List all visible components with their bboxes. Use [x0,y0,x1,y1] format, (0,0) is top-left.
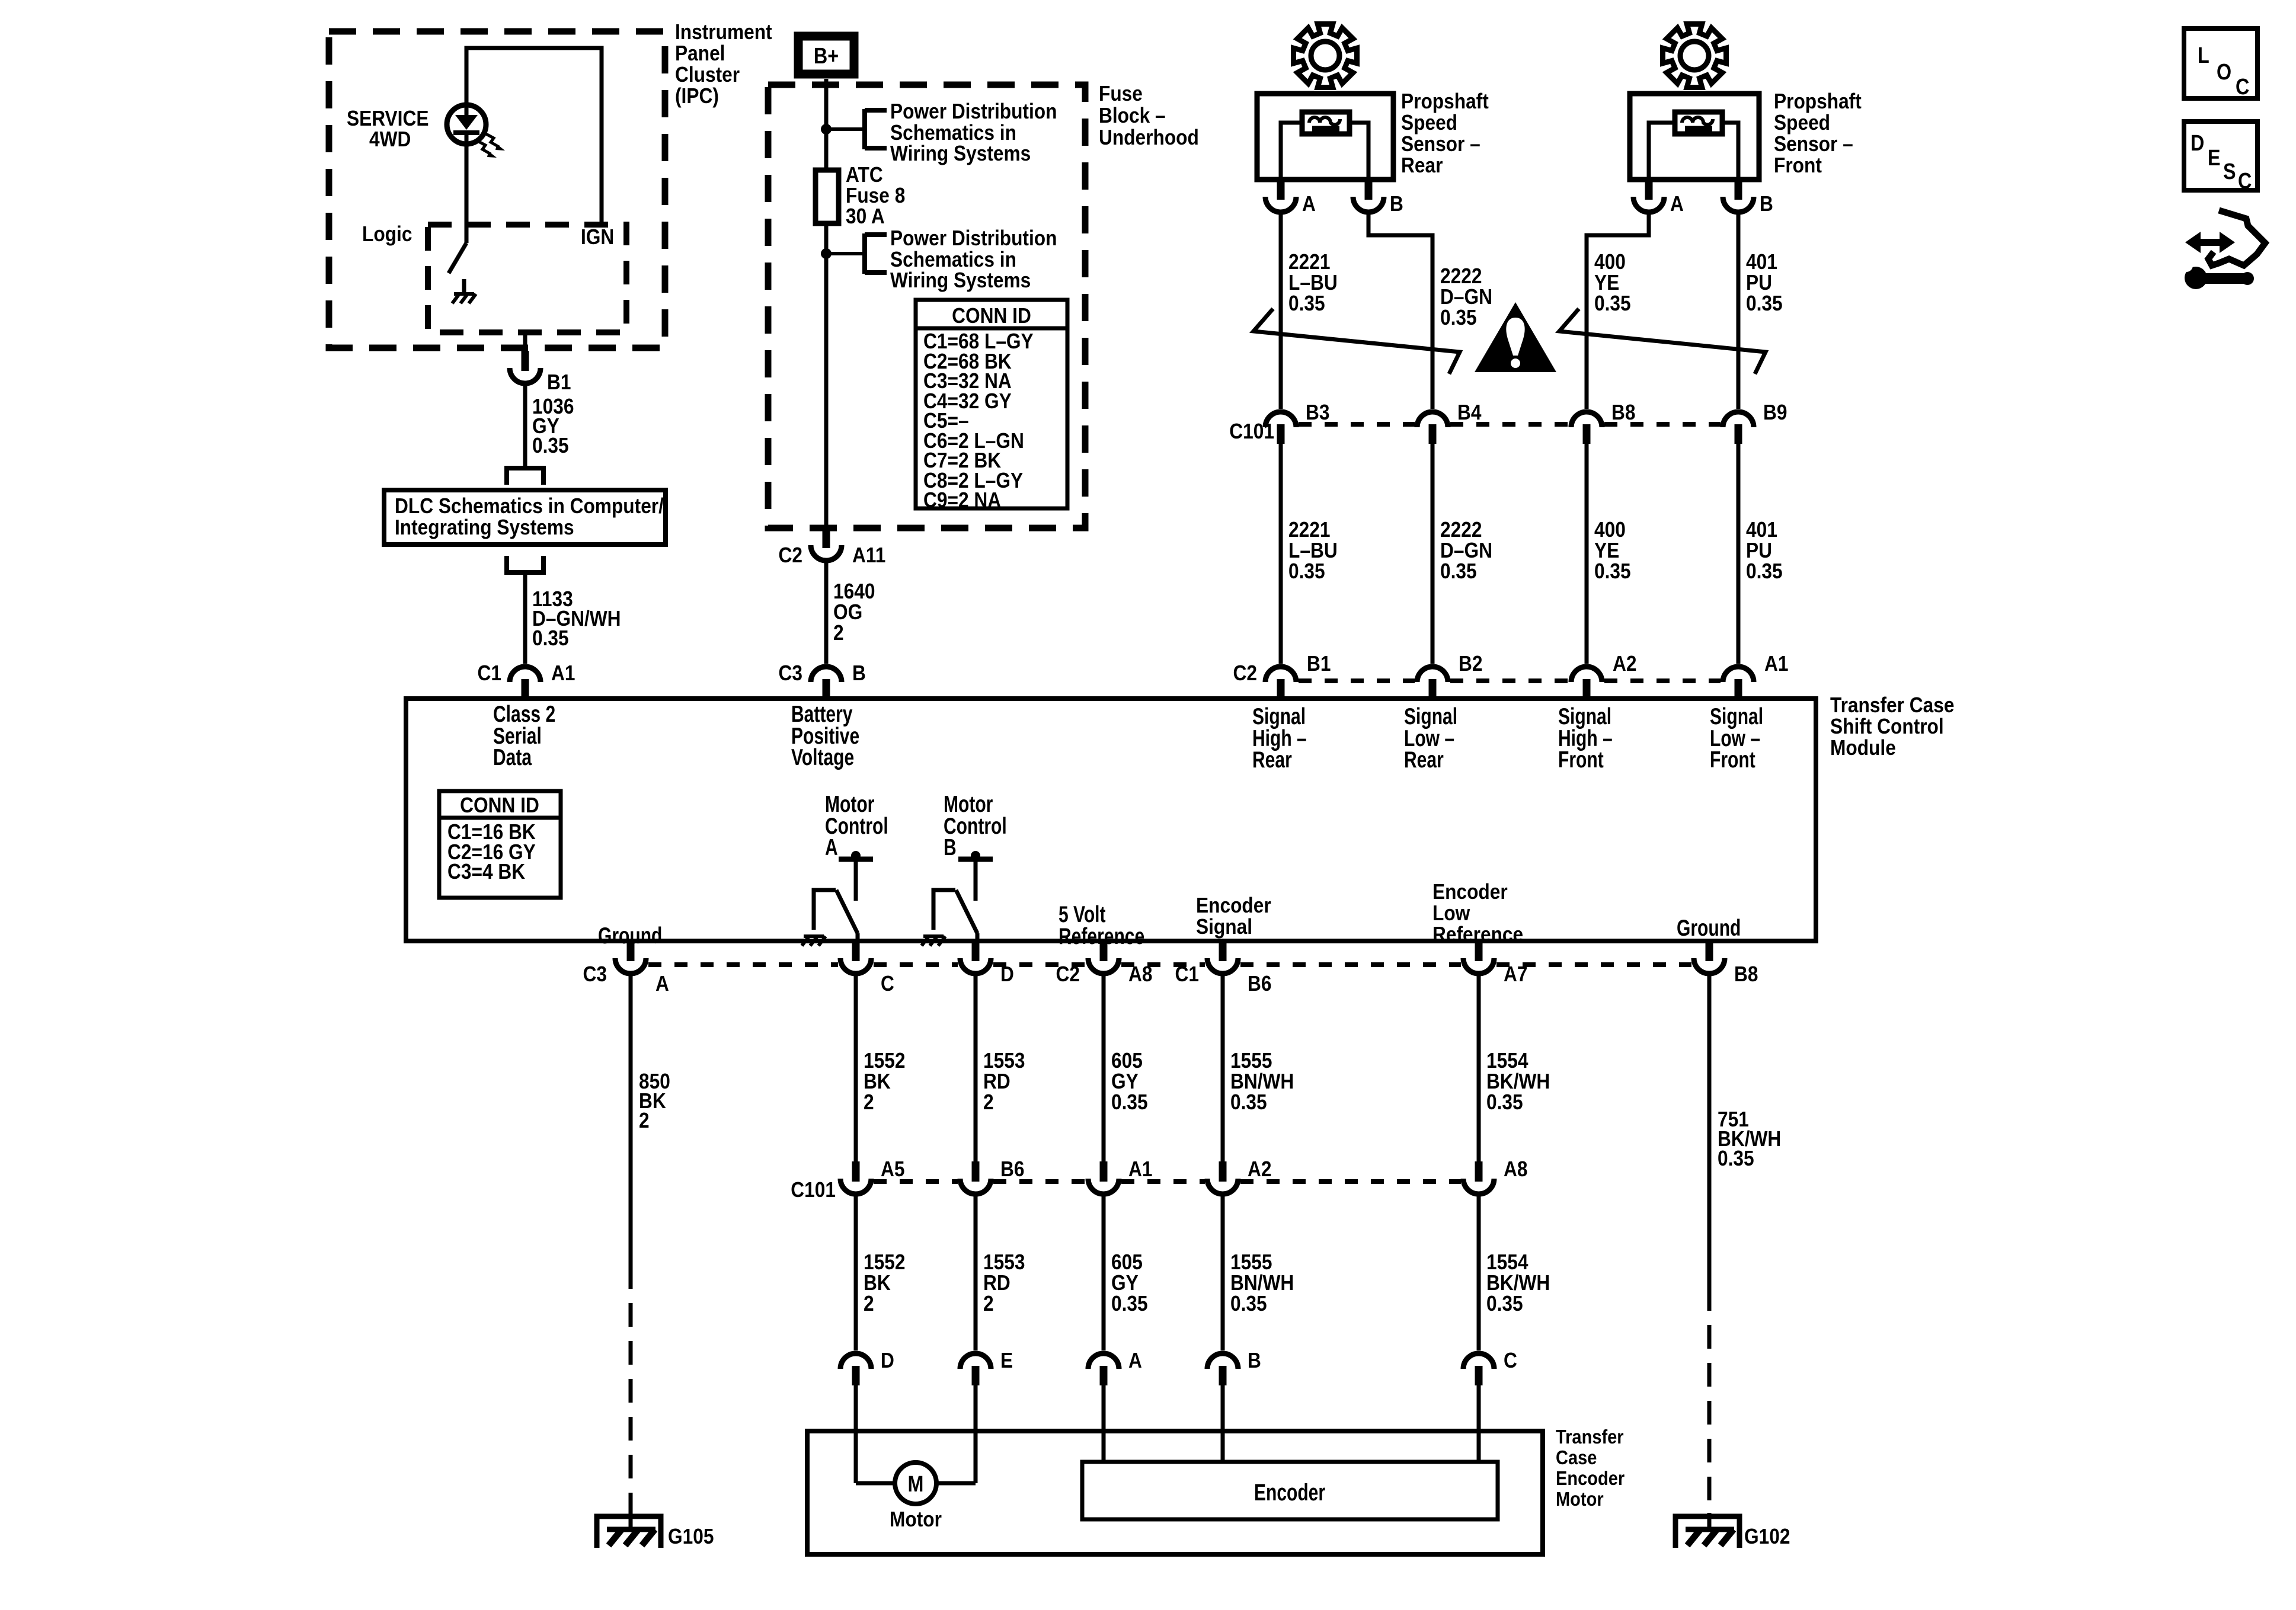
wire label 400 upper [1594,250,1631,315]
svg-text:A: A [825,834,838,860]
svg-text:Panel: Panel [675,41,725,65]
label Instrument Panel Cluster (IPC) [675,20,772,108]
wire label 751 BK/WH 0.35 [1718,1108,1781,1170]
svg-text:0.35: 0.35 [1594,559,1631,583]
wire label 605 GY 0.35 (lower) [1111,1250,1148,1315]
wire label 401 upper [1746,250,1783,315]
wire 1554 mid segment [1477,1194,1481,1350]
motor control driver A [802,851,873,946]
junction dot 2 [821,248,832,259]
svg-text:2: 2 [983,1090,994,1114]
svg-text:A: A [1302,192,1316,216]
svg-text:0.35: 0.35 [1440,306,1477,329]
ground in logic box [452,279,476,303]
svg-text:C9=2 NA: C9=2 NA [923,488,1001,512]
svg-text:B3: B3 [1306,401,1329,424]
label A (rear) [1302,192,1316,216]
label B (rear) [1390,192,1403,216]
label C3 (bottom left) [583,962,607,986]
wire label 2221 lower [1288,518,1338,583]
label B1 (module) [1307,652,1331,676]
svg-text:C3=4 BK: C3=4 BK [447,860,526,884]
wire label 1552 BK 2 (lower) [864,1250,905,1315]
svg-text:(IPC): (IPC) [675,84,719,108]
label Propshaft Speed Sensor Front [1774,89,1862,177]
svg-text:30 A: 30 A [846,204,885,228]
svg-text:B: B [1760,192,1773,216]
label B8 [1611,401,1635,424]
svg-text:C3: C3 [583,962,607,986]
label C (motor) [1504,1349,1517,1372]
svg-text:G105: G105 [668,1525,714,1548]
svg-text:Underhood: Underhood [1099,126,1199,149]
svg-text:C: C [881,972,894,996]
svg-text:2: 2 [833,621,844,645]
branch wire to power distribution 1 [826,127,865,131]
label C1 [478,661,501,685]
connector motor C [1463,1353,1494,1385]
svg-text:0.35: 0.35 [532,626,569,650]
svg-text:2: 2 [639,1109,650,1132]
label E (motor) [1000,1349,1013,1372]
svg-text:L: L [2198,43,2209,68]
svg-text:C: C [1504,1349,1517,1372]
svg-text:Speed: Speed [1401,111,1457,135]
connector C101 B4 [1417,412,1448,444]
label A8 (lower) [1504,1157,1527,1181]
connector dashed line (module top) [1299,678,1721,683]
wire 1552 upper segment [854,974,858,1161]
svg-text:B+: B+ [814,44,839,69]
wire B+ to fuse [824,79,829,170]
svg-text:B1: B1 [547,370,571,394]
wire label 2222 upper [1440,264,1492,329]
svg-text:C101: C101 [791,1178,836,1202]
switch blade [449,243,466,273]
svg-text:C2: C2 [779,543,802,567]
LOC icon [2184,28,2257,100]
gear icon (rear propshaft) [1294,24,1357,88]
connector module bottom C [840,941,871,974]
connector C2-A11 [811,528,842,561]
svg-text:Block –: Block – [1099,104,1166,127]
connector module bottom B8 [1694,941,1725,974]
label Logic [362,222,412,246]
connector B (front) [1723,180,1754,212]
wire fuse to A11 [824,223,829,528]
label C101 (upper) [1229,420,1274,443]
label IGN [581,225,614,249]
label power distribution 1 [890,100,1057,165]
connector motor D [840,1353,871,1385]
svg-text:D: D [881,1349,894,1372]
svg-text:Transfer Case: Transfer Case [1830,693,1954,717]
svg-text:B9: B9 [1763,401,1787,424]
wire into encoder motor box B [1221,1385,1225,1464]
continuation bracket above DLC [507,468,543,485]
svg-text:C3: C3 [779,661,802,685]
svg-text:0.35: 0.35 [1111,1090,1148,1114]
label D (motor) [881,1349,894,1372]
CONN ID table (fuse block) [916,300,1067,512]
svg-text:B: B [1390,192,1403,216]
ground G105 [597,1516,661,1548]
label C2 [779,543,802,567]
label B4 [1457,401,1482,424]
svg-text:C: C [2238,169,2252,194]
connector module bottom A8 [1088,941,1119,974]
svg-text:A5: A5 [881,1157,904,1181]
wire LED to switch [465,144,469,243]
label Ground (right) [1677,915,1741,941]
svg-text:E: E [2208,146,2221,171]
label Encoder Signal [1196,894,1271,939]
svg-text:A: A [655,972,669,996]
svg-text:Low: Low [1432,901,1470,925]
wire motor left [856,1481,895,1486]
transfer case shift control module box [406,699,1816,941]
connector C101 A5 (lower) [840,1161,871,1194]
wire 1552 mid segment [854,1194,858,1350]
svg-text:0.35: 0.35 [1746,559,1783,583]
svg-text:E: E [1000,1349,1013,1372]
svg-text:IGN: IGN [581,225,614,249]
wire 1554 upper segment [1477,974,1481,1161]
sensor element (front) [1675,112,1722,134]
wire 2222 lower [1431,444,1435,664]
svg-text:2: 2 [983,1292,994,1315]
sensor leads (rear) [1281,123,1368,180]
svg-text:Front: Front [1558,747,1604,773]
motor control driver B [922,851,993,946]
svg-text:4WD: 4WD [369,127,411,151]
wire label 1554 BK/WH 0.35 (upper) [1486,1049,1550,1114]
svg-text:O: O [2217,60,2231,85]
wire label 1553 RD 2 (lower) [983,1250,1025,1315]
svg-text:Front: Front [1774,153,1822,177]
svg-text:CONN ID: CONN ID [460,793,539,817]
svg-text:B2: B2 [1459,652,1482,676]
svg-text:S: S [2223,159,2236,184]
twisted pair symbol front [1559,309,1766,374]
svg-text:0.35: 0.35 [1746,292,1783,315]
label A5 (lower) [881,1157,904,1181]
svg-text:D: D [2191,131,2204,156]
ground G102 [1675,1516,1739,1548]
connector C101 B9 [1723,412,1754,444]
fuse block underhood box (dashed) [768,85,1085,528]
svg-text:Ground: Ground [1677,915,1741,941]
label B2 (module) [1459,652,1482,676]
wire 1553 mid segment [974,1194,978,1350]
svg-text:0.35: 0.35 [1288,292,1325,315]
wire label 1555 BN/WH 0.35 (lower) [1230,1250,1294,1315]
wire 401 lower [1737,444,1741,664]
svg-text:Speed: Speed [1774,111,1830,135]
label DLC Schematics [395,494,664,539]
wire label 1640 OG 2 [833,580,875,645]
connector motor A [1088,1353,1119,1385]
wire 605 mid segment [1102,1194,1106,1350]
connector module bottom A [615,941,646,974]
connector module C2-B1 [1265,667,1296,699]
label B3 [1306,401,1329,424]
svg-text:Propshaft: Propshaft [1401,89,1489,113]
label A8 (bottom) [1128,962,1152,986]
connector dashed line (lower C101) [874,1179,1461,1184]
label B6 (bottom) [1248,972,1271,996]
callout bracket power distribution 1 [865,109,887,149]
svg-text:CONN ID: CONN ID [952,304,1031,328]
label C2 (module) [1233,661,1257,685]
svg-text:Rear: Rear [1401,153,1443,177]
connector C101 A1 (lower) [1088,1161,1119,1194]
wire label 605 GY 0.35 (upper) [1111,1049,1148,1114]
svg-text:C1: C1 [478,661,501,685]
label Fuse Block Underhood [1099,82,1199,149]
connector module A1 [1723,667,1754,699]
svg-text:B: B [852,661,866,685]
label ATC Fuse 8 30 A [846,163,905,228]
svg-text:A1: A1 [1764,652,1788,676]
battery positive B+ box [798,36,854,74]
svg-text:DLC Schematics in Computer/: DLC Schematics in Computer/ [395,494,664,518]
wire 1133 [523,572,527,664]
svg-text:0.35: 0.35 [1440,559,1477,583]
label A7 (bottom) [1504,962,1527,986]
svg-text:0.35: 0.35 [1486,1090,1523,1114]
wire label 2222 lower [1440,518,1492,583]
svg-text:Cluster: Cluster [675,63,740,87]
wire logic box to B1 [523,332,527,351]
wire label 1552 BK 2 (upper) [864,1049,905,1114]
hyperlink icon (arrow and wrench) [2180,210,2265,289]
label A (bottom) [655,972,669,996]
wire 2221 lower [1279,444,1283,664]
connector module bottom B6 [1207,941,1238,974]
fuse ATC Fuse 8 30A [816,170,839,223]
connector dashed line (module bottom) [648,962,1691,967]
svg-text:Power Distribution: Power Distribution [890,100,1057,123]
encoder box [1082,1462,1498,1519]
svg-text:Motor: Motor [1556,1488,1604,1510]
svg-text:C2: C2 [1233,661,1257,685]
label A2 (lower) [1248,1157,1271,1181]
wire label 400 lower [1594,518,1631,583]
svg-text:C: C [2236,75,2249,100]
svg-text:0.35: 0.35 [1230,1090,1267,1114]
wire into encoder motor box D [854,1385,858,1483]
label Motor [890,1507,942,1531]
connector C101 B8 [1571,412,1602,444]
svg-text:Integrating Systems: Integrating Systems [395,516,574,539]
wire label 1555 BN/WH 0.35 (upper) [1230,1049,1294,1114]
label G105 [668,1525,714,1548]
transfer case encoder motor box [807,1431,1543,1554]
svg-text:0.35: 0.35 [1486,1292,1523,1315]
svg-text:0.35: 0.35 [1288,559,1325,583]
svg-text:Encoder: Encoder [1196,894,1271,917]
wire 751 BK/WH [1707,974,1712,1529]
label B (motor) [1248,1349,1261,1372]
svg-text:B1: B1 [1307,652,1331,676]
wire into encoder motor box C [1477,1385,1481,1464]
svg-text:A1: A1 [551,661,575,685]
svg-text:G102: G102 [1744,1525,1790,1548]
label A2 (module) [1613,652,1636,676]
svg-text:B: B [1248,1349,1261,1372]
label Signal High Rear [1252,703,1307,773]
svg-text:2: 2 [864,1292,874,1315]
svg-text:0.35: 0.35 [532,434,569,457]
twisted pair symbol rear [1253,309,1460,374]
svg-text:Signal: Signal [1196,915,1252,939]
label C3 [779,661,802,685]
sensor element (rear) [1302,112,1350,134]
wire 400 lower [1585,444,1589,664]
label Encoder [1254,1480,1325,1506]
label B (front) [1760,192,1773,216]
wire label 850 BK 2 [639,1070,670,1132]
motor M [895,1462,936,1504]
wire 1555 mid segment [1221,1194,1225,1350]
wire 2222 upper [1368,212,1432,409]
connector A (front) [1633,180,1664,212]
svg-text:B8: B8 [1734,962,1758,986]
svg-text:Rear: Rear [1252,747,1292,773]
wire label 1554 BK/WH 0.35 (lower) [1486,1250,1550,1315]
wire 1640 [824,561,829,664]
wire label 1553 RD 2 (upper) [983,1049,1025,1114]
connector C101 dashed line (upper) [1299,422,1721,427]
svg-text:A1: A1 [1128,1157,1152,1181]
callout bracket power distribution 2 [865,233,887,274]
wire 1555 upper segment [1221,974,1225,1161]
connector motor E [960,1353,991,1385]
svg-text:M: M [908,1472,924,1497]
label Battery Positive Voltage [791,701,859,770]
wire 1553 upper segment [974,974,978,1161]
label Class 2 Serial Data [493,701,555,770]
wire into encoder motor box E [974,1385,978,1483]
wire 2221 upper [1279,212,1283,409]
svg-text:0.35: 0.35 [1718,1147,1754,1170]
DLC reference box [384,490,666,545]
DESC icon [2184,121,2257,194]
label 5 Volt Reference [1059,901,1144,949]
LED light arrows [478,134,505,158]
wire IGN loop [466,48,602,225]
svg-text:Sensor –: Sensor – [1401,132,1480,156]
label A (motor) [1128,1349,1142,1372]
connector C101 A8 (lower) [1463,1161,1494,1194]
logic box (dashed) [428,225,626,332]
connector motor B [1207,1353,1238,1385]
svg-text:Motor: Motor [890,1507,942,1531]
svg-text:A11: A11 [852,543,885,567]
label A1 [551,661,575,685]
svg-text:B: B [944,834,957,860]
connector C3-B [811,667,842,699]
svg-text:B6: B6 [1000,1157,1024,1181]
svg-text:0.35: 0.35 [1230,1292,1267,1315]
wire label 1133 D-GN/WH 0.35 [532,587,621,650]
label Transfer Case Shift Control Module [1830,693,1954,760]
label C101 (lower) [791,1178,836,1202]
label B9 [1763,401,1787,424]
svg-text:Wiring Systems: Wiring Systems [890,268,1031,292]
label B [852,661,866,685]
connector module A2 [1571,667,1602,699]
svg-text:B4: B4 [1457,401,1482,424]
label C (bottom) [881,972,894,996]
connector module bottom D [960,941,991,974]
connector C101 B3 [1265,412,1296,444]
wire into encoder motor box A [1102,1385,1106,1464]
svg-text:Sensor –: Sensor – [1774,132,1853,156]
svg-text:Propshaft: Propshaft [1774,89,1862,113]
connector C1-A1 [510,667,541,699]
label B8 (bottom) [1734,962,1758,986]
connector module B2 [1417,667,1448,699]
svg-text:Fuse: Fuse [1099,82,1143,105]
svg-text:0.35: 0.35 [1111,1292,1148,1315]
label B6 (lower) [1000,1157,1024,1181]
connector A (rear) [1265,180,1296,212]
connector B (rear) [1353,180,1384,212]
gear icon (front propshaft) [1663,24,1726,88]
svg-text:A2: A2 [1248,1157,1271,1181]
svg-text:Front: Front [1710,747,1755,773]
wire label 1036 GY 0.35 [532,395,574,457]
label A1 (lower) [1128,1157,1152,1181]
label D (bottom) [1000,962,1014,986]
svg-text:0.35: 0.35 [1594,292,1631,315]
label C1 (bottom) [1175,962,1199,986]
propshaft speed sensor rear box [1257,94,1393,180]
svg-text:2: 2 [864,1090,874,1114]
svg-text:A: A [1128,1349,1142,1372]
wire 1036 [523,383,527,468]
label G102 [1744,1525,1790,1548]
label Propshaft Speed Sensor Rear [1401,89,1489,177]
wire 400 upper [1587,212,1649,409]
branch wire to power distribution 2 [826,252,865,255]
continuation bracket below DLC [507,556,543,572]
label Encoder Low Reference [1432,880,1523,946]
svg-text:Encoder: Encoder [1432,880,1508,904]
label Signal Low Front [1710,703,1763,773]
label SERVICE 4WD [347,107,428,151]
sensor leads (front) [1649,123,1738,180]
wire 605 upper segment [1102,974,1106,1161]
instrument panel cluster (IPC) box [329,31,665,348]
wire label 401 lower [1746,518,1783,583]
CONN ID table (module) [439,791,561,898]
label B1 [547,370,571,394]
svg-text:Rear: Rear [1404,747,1444,773]
svg-text:B8: B8 [1611,401,1635,424]
connector B1 [510,351,541,383]
svg-text:Transfer: Transfer [1556,1426,1624,1448]
wire 401 upper [1737,212,1741,409]
label A1 (module, right) [1764,652,1788,676]
junction dot 1 [821,124,832,135]
label Motor Control B [944,791,1007,860]
svg-text:A: A [1670,192,1684,216]
label Signal High Front [1558,703,1613,773]
svg-text:Encoder: Encoder [1254,1480,1325,1506]
